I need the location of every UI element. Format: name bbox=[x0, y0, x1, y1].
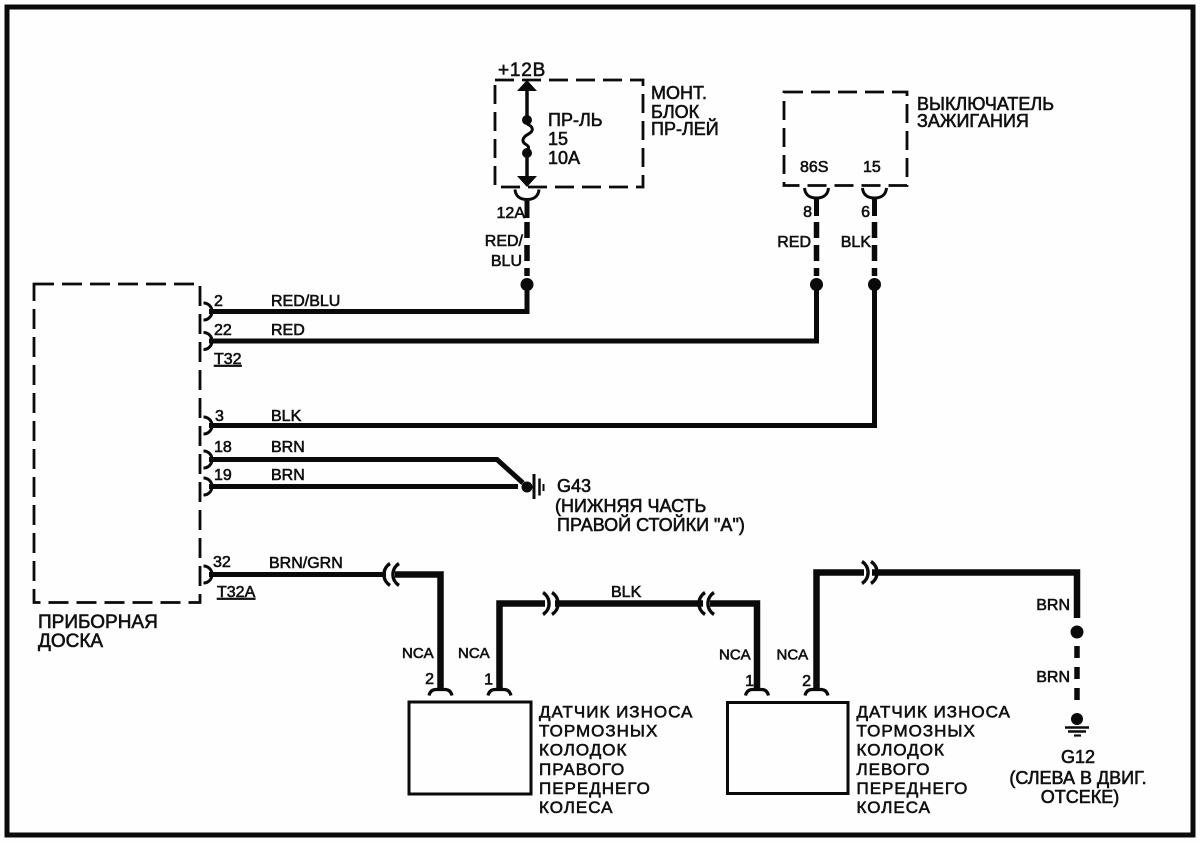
svg-text:6: 6 bbox=[861, 204, 870, 221]
right sensor pin 2 terminal flare bbox=[429, 690, 452, 696]
svg-text:12А: 12А bbox=[497, 205, 526, 222]
wire BRN pin19 horizontal bbox=[209, 484, 518, 489]
svg-text:ДАТЧИК ИЗНОСА: ДАТЧИК ИЗНОСА bbox=[857, 703, 1011, 722]
svg-text:BRN: BRN bbox=[271, 467, 305, 484]
svg-text:32: 32 bbox=[213, 554, 231, 571]
junction splice node on RED/BLU bbox=[521, 278, 534, 291]
relay/fuse mounting block box (МОНТ. БЛОК ПР-ЛЕЙ) bbox=[495, 80, 719, 187]
inline connector )) on middle BLK wire bbox=[543, 593, 558, 615]
wire BRN dashed to G12 bbox=[1074, 646, 1080, 700]
ignition switch box (ВЫКЛЮЧАТЕЛЬ ЗАЖИГАНИЯ) bbox=[784, 92, 1054, 186]
svg-text:МОНТ.: МОНТ. bbox=[651, 83, 707, 103]
svg-text:КОЛОДОК: КОЛОДОК bbox=[539, 741, 627, 760]
svg-text:2: 2 bbox=[214, 293, 223, 310]
svg-text:RED/BLU: RED/BLU bbox=[271, 293, 340, 310]
svg-text:BRN: BRN bbox=[271, 439, 305, 456]
wire RED/BLU pin2 horizontal bbox=[209, 309, 530, 314]
svg-text:NCA: NCA bbox=[777, 647, 809, 664]
inline connector (( on BRN/GRN wire bbox=[384, 564, 399, 586]
svg-text:+12В: +12В bbox=[498, 60, 546, 81]
wire from splice down to pin 2 wire bbox=[525, 284, 530, 312]
svg-text:BLK: BLK bbox=[611, 584, 642, 601]
svg-text:G12: G12 bbox=[1061, 747, 1095, 767]
svg-text:BLU: BLU bbox=[491, 253, 522, 270]
wire BRN/GRN continues to right sensor pin 2 bbox=[395, 575, 441, 689]
svg-text:BRN: BRN bbox=[1036, 597, 1070, 614]
wire RED/BLU dashed from fuse bbox=[485, 222, 527, 276]
svg-text:ТОРМОЗНЫХ: ТОРМОЗНЫХ bbox=[857, 722, 976, 741]
ground G43 label bbox=[555, 476, 745, 535]
svg-text:(СЛЕВА В ДВИГ.: (СЛЕВА В ДВИГ. bbox=[1009, 768, 1146, 788]
svg-text:1: 1 bbox=[745, 673, 754, 690]
svg-text:15: 15 bbox=[863, 159, 881, 176]
pin 18 connector arc bbox=[204, 451, 213, 468]
svg-text:ЗАЖИГАНИЯ: ЗАЖИГАНИЯ bbox=[917, 111, 1029, 131]
svg-text:G43: G43 bbox=[557, 476, 591, 496]
connector pin 12A under fuse block bbox=[497, 190, 539, 223]
right front brake pad wear sensor box bbox=[409, 702, 693, 817]
svg-text:10А: 10А bbox=[548, 148, 580, 168]
svg-text:ТОРМОЗНЫХ: ТОРМОЗНЫХ bbox=[539, 722, 658, 741]
ignition switch pin name 86S bbox=[800, 159, 828, 176]
wire BRN to right and down bbox=[872, 573, 1077, 619]
left sensor pin 2 terminal flare bbox=[805, 690, 828, 696]
left sensor pin 1 terminal flare bbox=[746, 690, 769, 696]
svg-text:ЛЕВОГО: ЛЕВОГО bbox=[857, 760, 931, 779]
svg-text:ПРИБОРНАЯ: ПРИБОРНАЯ bbox=[38, 612, 158, 633]
junction splice on BLK bbox=[868, 278, 881, 291]
svg-text:ПЕРЕДНЕГО: ПЕРЕДНЕГО bbox=[857, 779, 969, 798]
connector pin 8 under ignition switch bbox=[803, 188, 828, 221]
ignition switch pin name 15 bbox=[863, 159, 881, 176]
node +12V supply label bbox=[498, 60, 546, 81]
svg-text:19: 19 bbox=[214, 467, 232, 484]
svg-text:BRN/GRN: BRN/GRN bbox=[269, 555, 343, 572]
svg-text:8: 8 bbox=[803, 204, 812, 221]
pin 32 connector arc bbox=[204, 566, 213, 583]
svg-text:NCA: NCA bbox=[719, 647, 751, 664]
left front brake pad wear sensor box bbox=[728, 703, 1011, 818]
svg-text:КОЛЕСА: КОЛЕСА bbox=[857, 798, 931, 817]
wire BLK splice to pin 3 wire bbox=[872, 284, 877, 426]
svg-text:T32: T32 bbox=[214, 351, 242, 368]
svg-text:T32A: T32A bbox=[217, 584, 256, 601]
svg-text:15: 15 bbox=[548, 129, 568, 149]
svg-text:ПРАВОЙ СТОЙКИ "А"): ПРАВОЙ СТОЙКИ "А") bbox=[557, 514, 745, 535]
connector pin 6 under ignition switch bbox=[861, 188, 886, 221]
fuse ПР-ЛЬ 15 10А with arrows bbox=[517, 80, 603, 187]
pin 19 connector arc bbox=[204, 478, 213, 495]
pin 2 connector arc bbox=[204, 303, 213, 320]
svg-text:BLK: BLK bbox=[841, 234, 872, 251]
svg-text:BLK: BLK bbox=[271, 408, 302, 425]
inline connector )) on BRN wire bbox=[862, 562, 877, 584]
ground G43 symbol bbox=[522, 474, 544, 499]
svg-text:1: 1 bbox=[484, 672, 493, 689]
svg-text:ПР-ЛЬ: ПР-ЛЬ bbox=[548, 110, 603, 130]
svg-text:BRN: BRN bbox=[1036, 669, 1070, 686]
wire RED pin22 horizontal bbox=[209, 339, 819, 344]
right sensor pin 1 terminal flare bbox=[488, 690, 511, 696]
svg-text:ПЕРЕДНЕГО: ПЕРЕДНЕГО bbox=[539, 779, 651, 798]
wire from left sensor pin 2 up and right (BRN) bbox=[817, 573, 865, 689]
pin 22 connector arc bbox=[204, 333, 213, 350]
junction splice on BRN bbox=[1071, 626, 1084, 639]
wire RED splice to pin 22 wire bbox=[814, 284, 819, 341]
pin 3 connector arc bbox=[204, 417, 213, 434]
ground G12 symbol bbox=[1065, 713, 1089, 736]
svg-text:18: 18 bbox=[214, 439, 232, 456]
wire BRN pin18 horizontal + diagonal to ground bbox=[209, 460, 523, 484]
svg-text:RED/: RED/ bbox=[485, 233, 524, 250]
svg-text:NCA: NCA bbox=[458, 645, 490, 662]
junction splice on RED bbox=[810, 278, 823, 291]
wire BLK middle horizontal bbox=[555, 600, 703, 607]
svg-text:КОЛЕСА: КОЛЕСА bbox=[539, 798, 613, 817]
svg-text:RED: RED bbox=[777, 234, 811, 251]
svg-text:RED: RED bbox=[271, 322, 305, 339]
svg-text:ОТСЕКЕ): ОТСЕКЕ) bbox=[1041, 787, 1120, 807]
svg-text:ПРАВОГО: ПРАВОГО bbox=[539, 760, 625, 779]
svg-text:86S: 86S bbox=[800, 159, 828, 176]
svg-text:КОЛОДОК: КОЛОДОК bbox=[857, 741, 945, 760]
inline connector (( on middle BLK wire bbox=[699, 593, 714, 615]
svg-text:ДОСКА: ДОСКА bbox=[38, 631, 103, 652]
ground G12 label bbox=[1009, 747, 1146, 807]
svg-text:ДАТЧИК ИЗНОСА: ДАТЧИК ИЗНОСА bbox=[539, 703, 693, 722]
svg-text:3: 3 bbox=[215, 408, 224, 425]
wire from right sensor pin 1 up and right (BLK) bbox=[500, 604, 546, 689]
svg-text:NCA: NCA bbox=[402, 645, 434, 662]
svg-text:2: 2 bbox=[425, 671, 434, 688]
instrument panel box (ПРИБОРНАЯ ДОСКА) bbox=[34, 284, 200, 652]
wire BLK dashed from pin 6 bbox=[841, 222, 875, 276]
svg-text:(НИЖНЯЯ ЧАСТЬ: (НИЖНЯЯ ЧАСТЬ bbox=[555, 496, 706, 516]
wire BLK to left sensor pin 1 bbox=[710, 604, 757, 689]
svg-text:22: 22 bbox=[214, 322, 232, 339]
wire RED dashed from pin 8 bbox=[777, 222, 816, 276]
wire BRN/GRN pin32 horizontal bbox=[209, 572, 386, 577]
wire BLK pin3 horizontal bbox=[209, 423, 877, 428]
svg-text:ПР-ЛЕЙ: ПР-ЛЕЙ bbox=[651, 118, 719, 139]
svg-text:2: 2 bbox=[802, 673, 811, 690]
